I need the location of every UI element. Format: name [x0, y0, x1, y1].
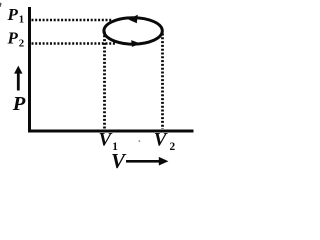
svg-text:P: P	[7, 28, 19, 47]
svg-text:V: V	[154, 130, 168, 151]
svg-text:2: 2	[19, 38, 24, 50]
svg-text:V: V	[111, 149, 127, 173]
svg-text:P: P	[12, 93, 26, 115]
svg-text:1: 1	[19, 14, 24, 26]
svg-text:2: 2	[170, 141, 176, 153]
svg-text:P: P	[7, 5, 19, 24]
svg-text:V: V	[99, 130, 113, 151]
